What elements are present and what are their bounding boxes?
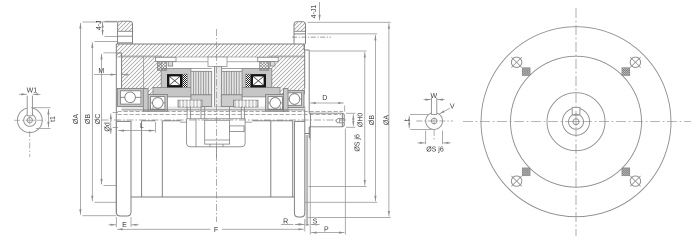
- keyway erase: [27, 106, 32, 116]
- dim L line: [118, 130, 155, 132]
- left top terminal screw: [158, 62, 167, 71]
- dimension W1: [19, 93, 27, 95]
- svg-text:ØC: ØC: [95, 114, 102, 125]
- bearing R2 block: [266, 95, 285, 112]
- 4-J ext lines: [105, 21, 118, 36]
- left flange face inner: [121, 53, 123, 88]
- left coil housing lower lip: [153, 87, 191, 97]
- right flange face outer: [308, 50, 310, 138]
- hub inner circle: [569, 114, 584, 129]
- bearing L step: [143, 88, 148, 111]
- svg-text:R: R: [283, 218, 288, 225]
- wv centerline vertical: [433, 130, 435, 140]
- svg-text:P: P: [324, 226, 329, 233]
- bearing L2 split: [151, 102, 165, 104]
- S arrow: [311, 223, 318, 225]
- left terminal tick: [168, 62, 173, 67]
- main vertical centerline: [216, 29, 218, 222]
- spline teeth right group: [234, 100, 259, 107]
- right bolt seat erase: [295, 32, 306, 44]
- center partition right wall: [221, 57, 223, 107]
- key square BL: [522, 168, 530, 176]
- bearing R1 race: [288, 93, 302, 106]
- right flange face inner: [304, 50, 306, 121]
- key square TR: [622, 68, 630, 76]
- hub center cross: [572, 117, 581, 126]
- dimension t1 line: [47, 109, 49, 127]
- key square TL: [522, 68, 530, 76]
- dim line Ød left: [110, 114, 112, 135]
- spline teeth left gaps: [182, 100, 200, 107]
- main horizontal centerline: [102, 119, 349, 121]
- left flange face outer: [115, 44, 117, 214]
- bearing L2 ball: [153, 98, 164, 109]
- sleeve bottom edge: [122, 109, 305, 111]
- output shaft top edge: [309, 112, 342, 114]
- hub keyway square: [572, 107, 580, 115]
- dim ØB right line: [374, 35, 376, 201]
- hub center circle: [573, 119, 579, 125]
- dim P line: [311, 232, 344, 234]
- right rotor web: [221, 95, 242, 107]
- svg-text:4-J: 4-J: [96, 20, 103, 30]
- right coil window: [253, 76, 264, 85]
- left bolt shank lines: [118, 36, 133, 43]
- ØB right ext top: [308, 33, 378, 35]
- svg-text:Ød: Ød: [105, 122, 112, 131]
- bearing R2 ball: [270, 98, 281, 109]
- bolt hole BL: [511, 176, 521, 186]
- wv keyway slot: [431, 98, 436, 115]
- bolt hole TL: [511, 57, 521, 67]
- output shaft bottom edge: [309, 126, 342, 128]
- bearing L1 race: [120, 91, 140, 104]
- right coil X: [253, 76, 264, 85]
- bearing L1 ball: [125, 92, 136, 103]
- dim D line: [310, 102, 344, 104]
- left flange step ext: [116, 52, 121, 54]
- S P ext lines: [306, 129, 345, 235]
- ØS j6 ext lines: [426, 131, 443, 145]
- shaft outer circle: [17, 108, 42, 133]
- svg-text:M: M: [98, 68, 104, 75]
- ØB right ext bottom: [305, 201, 377, 203]
- wv centerline horizontal: [416, 120, 453, 122]
- hub bore circle: [562, 108, 589, 135]
- bearing R2 race: [268, 97, 282, 110]
- ØS ext lines: [346, 113, 355, 127]
- drum wall left2: [161, 121, 163, 197]
- svg-text:ØA: ØA: [384, 115, 391, 125]
- bearing R1 block: [286, 91, 305, 108]
- wv center cross: [430, 117, 438, 125]
- hidden spline line upper1: [118, 110, 344, 112]
- center partition top: [208, 57, 227, 67]
- svg-text:S: S: [313, 219, 318, 226]
- ØA right ext bottom: [308, 217, 391, 219]
- spline teeth left group: [178, 100, 202, 107]
- hub outline: [187, 119, 246, 147]
- svg-text:D: D: [322, 95, 327, 102]
- svg-text:ØS j6: ØS j6: [426, 147, 444, 154]
- bearing L1 split: [120, 96, 140, 98]
- bolt hole TR: [630, 57, 640, 67]
- dim t line: [408, 116, 410, 129]
- hub keyway erase: [572, 107, 579, 111]
- hidden spline line upper2: [118, 113, 342, 115]
- partition stem: [215, 67, 222, 107]
- R S dim line: [281, 223, 320, 225]
- ØB ext top: [94, 41, 117, 43]
- hub notch: [230, 126, 244, 132]
- drum top edge right: [253, 120, 293, 122]
- body top edge: [116, 43, 304, 45]
- wv center circle: [431, 118, 437, 124]
- svg-text:ØB: ØB: [85, 114, 92, 124]
- svg-text:W: W: [430, 93, 437, 100]
- ØA ext bottom: [83, 215, 117, 217]
- key square BR: [622, 168, 630, 176]
- dim line ØC left: [101, 54, 103, 185]
- dim ØH0 line: [364, 52, 366, 186]
- dim ØS arrows: [418, 142, 426, 144]
- spline teeth right gaps: [237, 100, 255, 107]
- left coil housing: [161, 68, 191, 92]
- right bolt shank line: [294, 33, 306, 35]
- bearing L2 block: [148, 95, 167, 112]
- wv shaft circle: [426, 113, 443, 130]
- V leader: [439, 108, 450, 114]
- right coil housing lower lip: [242, 87, 280, 97]
- bearing L1 block: [117, 88, 143, 106]
- ØC ext bottom: [104, 184, 117, 186]
- Ød ext bottom: [113, 127, 118, 129]
- dim ØS j6 line: [352, 114, 354, 126]
- bearing R1 ball: [289, 94, 300, 105]
- L arrow left: [119, 130, 127, 132]
- t ext lines: [410, 115, 433, 130]
- end view vertical centerline: [575, 8, 577, 236]
- Ød ext top: [113, 112, 118, 114]
- ØH0 ext top: [310, 50, 367, 52]
- right terminal tick: [270, 62, 275, 67]
- bearing R step: [284, 88, 289, 111]
- detail centerline horizontal: [14, 119, 46, 121]
- L arrow right: [147, 130, 154, 132]
- svg-text:t: t: [404, 119, 411, 121]
- dim ØA right line: [388, 23, 390, 216]
- dim 4-J line: [102, 22, 104, 35]
- svg-text:ØA: ØA: [73, 114, 80, 124]
- shaft hub stub below: [305, 113, 311, 140]
- svg-text:ØB: ØB: [369, 115, 376, 125]
- svg-text:ØH0: ØH0: [358, 113, 365, 128]
- dim M arrows: [94, 74, 116, 76]
- inner wall right2: [292, 121, 294, 197]
- ØC ext top: [104, 52, 122, 54]
- E foot ext lines: [116, 217, 131, 227]
- svg-text:ØS j6: ØS j6: [354, 134, 361, 152]
- stator hatch right pillar: [270, 56, 305, 94]
- stator hatch top band: [116, 44, 304, 57]
- right bolt axis dash: [292, 36, 331, 38]
- left top bolt: [118, 21, 133, 44]
- svg-text:4-J1: 4-J1: [311, 5, 318, 19]
- left coil body: [167, 74, 182, 87]
- output shaft chamfer: [342, 113, 344, 127]
- svg-text:E: E: [122, 222, 127, 229]
- right disc pack base: [221, 71, 242, 95]
- left bolt seat erase: [118, 32, 132, 44]
- svg-text:V: V: [450, 104, 455, 111]
- dim line ØB left: [91, 42, 93, 201]
- D ext right: [344, 106, 346, 112]
- ØA right ext top: [308, 21, 391, 23]
- left top terminal bar: [156, 57, 177, 61]
- F right ext: [304, 219, 306, 232]
- left coil checker: [182, 74, 187, 87]
- right coil housing: [242, 68, 272, 92]
- ØB ext bottom: [94, 201, 116, 203]
- keyway slot W1: [27, 96, 32, 116]
- left coil window: [169, 76, 180, 85]
- bearing R2 split: [268, 102, 282, 104]
- dim line ØA left: [79, 23, 81, 215]
- rotor sleeve band: [122, 107, 305, 110]
- 4-J1 leader: [319, 2, 321, 20]
- sleeve spline ticks: [150, 107, 283, 110]
- body right step: [304, 44, 309, 50]
- hub inner bottom line: [205, 140, 230, 147]
- right top terminal screw: [260, 62, 269, 71]
- hub inner rect: [205, 120, 230, 144]
- dim F line: [117, 228, 304, 230]
- dimension t1 extension lines: [31, 108, 51, 129]
- flange outer circle: [481, 27, 671, 217]
- left disc pack plates: [193, 71, 208, 95]
- svg-text:W1: W1: [27, 88, 38, 95]
- ØA ext top: [83, 21, 118, 23]
- right top bolt: [294, 22, 306, 44]
- stator hatch left pillar: [122, 56, 144, 88]
- hub outer circle: [547, 93, 605, 151]
- L ext right: [154, 122, 156, 133]
- left bolt head base: [118, 30, 133, 32]
- left coil X: [169, 76, 180, 85]
- svg-text:L: L: [140, 123, 144, 130]
- inner bore wall left: [141, 121, 143, 197]
- wv keyway erase: [432, 112, 437, 115]
- hub left shoulder: [180, 121, 252, 123]
- slot cover joint line: [162, 61, 276, 63]
- right top terminal bar: [258, 57, 279, 61]
- hub upper verticals: [187, 107, 245, 119]
- body circle: [511, 56, 642, 187]
- center partition left wall: [214, 57, 216, 107]
- right coil body: [251, 74, 266, 87]
- svg-text:t1: t1: [50, 116, 57, 122]
- shaft hub circle: [24, 114, 36, 126]
- bearing R1 split: [288, 98, 302, 100]
- end view horizontal centerline: [463, 121, 691, 123]
- hub inner web line: [195, 119, 197, 147]
- left disc pack base: [191, 71, 212, 95]
- right foot: [294, 121, 304, 217]
- disc pack retainer lines: [191, 67, 242, 69]
- detail centerline vertical below: [29, 131, 31, 157]
- R arrows: [295, 223, 304, 225]
- bolt hole BR: [630, 176, 640, 186]
- shaft center hole: [336, 119, 344, 123]
- stator hatch left pillar inner: [143, 56, 161, 95]
- drum top edge left: [142, 120, 181, 122]
- left foot: [116, 121, 131, 216]
- right coil checker: [246, 74, 251, 87]
- hub stem: [216, 147, 218, 158]
- dim E arrows: [109, 224, 117, 226]
- ØH0 ext bottom: [308, 186, 366, 188]
- right disc pack plates: [224, 71, 239, 95]
- inner bore wall right: [270, 121, 272, 197]
- dim W arrows: [424, 99, 431, 101]
- right bolt head base: [294, 30, 306, 32]
- bearing L2 race: [151, 97, 165, 110]
- shaft center circle: [27, 118, 32, 123]
- svg-text:F: F: [214, 227, 218, 234]
- center cross ticks: [26, 116, 34, 124]
- left rotor web: [191, 95, 212, 107]
- body bottom edge between feet: [131, 196, 294, 198]
